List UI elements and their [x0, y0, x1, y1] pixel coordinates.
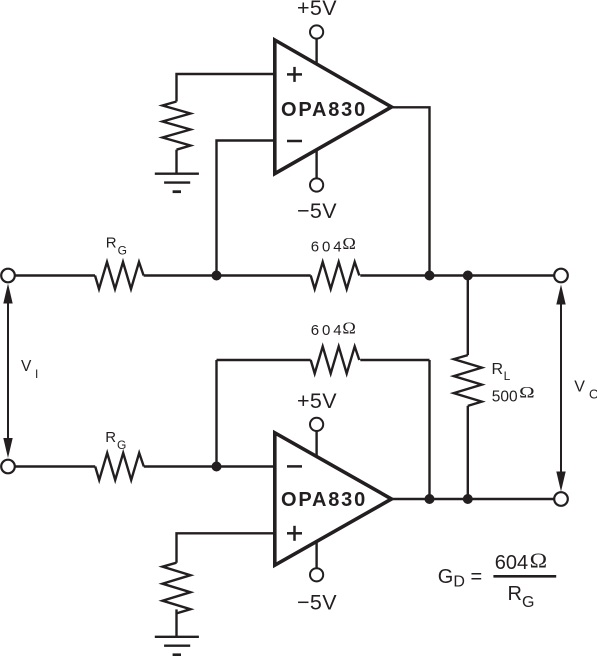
svg-text:604: 604 [495, 552, 528, 574]
svg-text:GD =: GD = [438, 566, 482, 591]
power terminal -5V (U1) [310, 178, 323, 191]
svg-text:VO: VO [574, 379, 597, 402]
wire R2 to ground [175, 150, 177, 174]
svg-text:Ω: Ω [519, 385, 535, 402]
power terminal -5V (U2) [310, 568, 323, 581]
svg-text:604: 604 [311, 322, 345, 339]
svg-text:RG: RG [106, 235, 127, 258]
svg-text:RL: RL [492, 361, 511, 383]
pin + (U2) [287, 526, 302, 541]
node A junction (top line / U1 inverting) [212, 271, 222, 281]
ground (top) [155, 174, 199, 192]
wire U1 +5V stub [315, 39, 317, 65]
power terminal +5V (U1) [310, 25, 323, 38]
wire R1 to output terminal OUT+ [360, 274, 554, 276]
junction RL on top line [463, 271, 473, 281]
wire R4 to ground [175, 609, 177, 636]
wire U2 noninverting input [177, 533, 274, 562]
svg-text:500: 500 [492, 388, 518, 405]
wire feedback right horizontal [360, 359, 429, 361]
op-amp U2 OPA830 (bottom) [275, 433, 392, 565]
wire bottom input line: terminal to RG2 [15, 465, 95, 467]
node B junction (bottom input / feedback) [212, 462, 222, 472]
svg-text:−5V: −5V [297, 591, 337, 615]
wire U2 output line to terminal OUT- [392, 498, 555, 500]
svg-text:RG: RG [508, 583, 535, 611]
resistor R4 (U2 + input to ground, vertical) [163, 563, 191, 614]
junction RL on output line [463, 494, 473, 504]
wire U2 -5V stub [315, 541, 317, 568]
wire feedback left horizontal [217, 359, 311, 361]
terminal IN+ [1, 269, 15, 283]
wire RL bottom segment [467, 406, 469, 499]
pin - (U1) [287, 140, 302, 143]
wire RG2 to U2 inverting input [144, 465, 274, 467]
resistor RG (top, horizontal) [95, 262, 144, 289]
VI measurement arrow [3, 284, 12, 459]
resistor RG (bottom, horizontal) [95, 453, 144, 480]
terminal OUT+ [554, 269, 568, 283]
wire feedback right vertical down to output line [428, 360, 430, 499]
wire RL top segment [467, 276, 469, 356]
svg-text:VI: VI [21, 358, 38, 381]
svg-text:OPA830: OPA830 [281, 99, 367, 121]
pin + (U1) [287, 67, 302, 82]
VO measurement arrow [556, 285, 565, 492]
svg-text:OPA830: OPA830 [281, 489, 367, 511]
resistor RL 500ohm (vertical) [454, 355, 482, 406]
power terminal +5V (U2) [310, 418, 323, 431]
svg-text:+5V: +5V [297, 0, 337, 20]
wire U1 output to top line [392, 107, 430, 275]
svg-text:Ω: Ω [342, 319, 356, 338]
resistor R2 (U1 + input to ground, vertical) [163, 102, 191, 150]
ground (bottom) [155, 637, 199, 655]
resistor R1 604ohm (top, horizontal) [311, 262, 360, 289]
op-amp U1 OPA830 (top) [275, 40, 392, 174]
wire U2 +5V stub [315, 431, 317, 456]
pin - (U2) [287, 465, 302, 468]
wire U1 -5V stub [315, 150, 317, 179]
junction feedback on output line [425, 494, 435, 504]
wire RG1 to R1 [144, 274, 311, 276]
svg-text:Ω: Ω [342, 234, 356, 253]
svg-text:Ω: Ω [530, 549, 548, 573]
terminal IN- [1, 460, 15, 474]
wire feedback loop left vertical (node B up) [215, 360, 217, 467]
wire top input line: terminal to RG1 [15, 274, 95, 276]
terminal OUT- [554, 492, 568, 506]
wire U1 noninverting input [177, 74, 274, 102]
svg-text:+5V: +5V [297, 389, 337, 413]
resistor R3 604ohm (feedback, horizontal) [311, 347, 360, 374]
svg-text:RG: RG [105, 429, 126, 452]
formula GD = 604ohm / RG [438, 549, 556, 612]
wire U1 inverting input from node A [217, 141, 274, 276]
junction U1 output on top line [425, 271, 435, 281]
svg-text:−5V: −5V [297, 199, 337, 223]
svg-text:604: 604 [311, 239, 345, 256]
